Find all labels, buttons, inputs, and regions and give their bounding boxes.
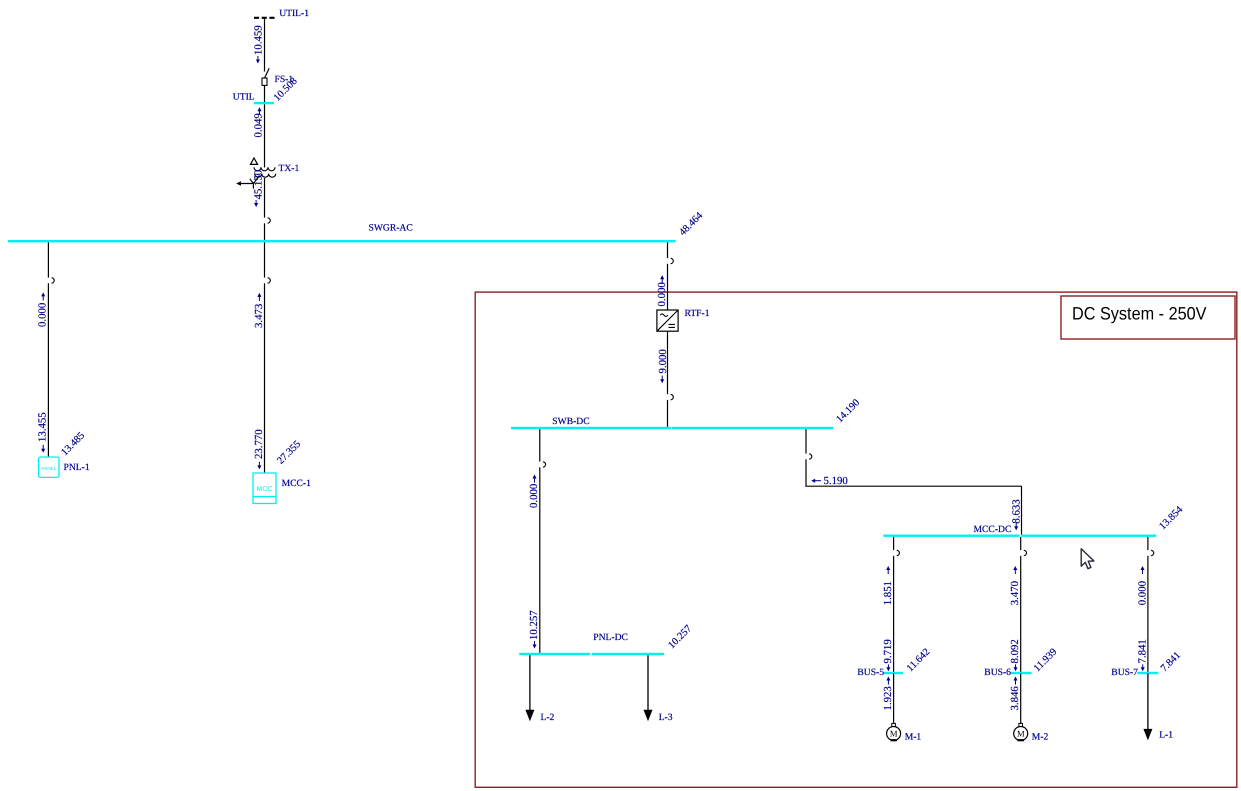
svg-text:MCC-DC: MCC-DC bbox=[974, 524, 1012, 535]
wire fuse to UTIL bus bbox=[264, 86, 266, 103]
svg-text:BUS-7: BUS-7 bbox=[1111, 667, 1138, 678]
svg-text:3.846: 3.846 bbox=[1009, 686, 1021, 711]
svg-text:0.000: 0.000 bbox=[528, 484, 540, 508]
flow arrow BUS-6 feed load bbox=[1013, 664, 1017, 671]
mouse cursor bbox=[1081, 549, 1094, 569]
circuit breaker CB PNL-DC feed bbox=[543, 462, 546, 467]
svg-text:BUS-6: BUS-6 bbox=[984, 667, 1011, 678]
flow arrow pnldc in bbox=[532, 475, 536, 483]
flow arrow mcc1 load bbox=[257, 462, 261, 470]
load L-1 bbox=[1143, 673, 1152, 740]
svg-text:10.459: 10.459 bbox=[252, 25, 264, 55]
svg-text:3.473: 3.473 bbox=[253, 304, 265, 328]
wire MCC-DC to BUS-7 lower bbox=[1147, 556, 1149, 672]
transformer TX-1 bbox=[254, 167, 276, 177]
wire MCC-DC to BUS-6 lower bbox=[1020, 556, 1022, 672]
flow arrow mcc1 in bbox=[257, 293, 261, 301]
bus UTIL bbox=[254, 102, 274, 104]
wire SWB-DC to MCC-DC v1 bbox=[805, 429, 807, 453]
wire SWB-DC to MCC-DC v3 bbox=[1021, 486, 1023, 534]
wire MCC-DC to BUS-5 lower bbox=[893, 556, 895, 672]
svg-text:UTIL: UTIL bbox=[233, 92, 255, 103]
svg-text:L-1: L-1 bbox=[1159, 729, 1173, 740]
svg-text:PNL-DC: PNL-DC bbox=[593, 632, 628, 643]
circuit breaker CB SWB-DC in bbox=[671, 394, 674, 399]
svg-text:MCC-1: MCC-1 bbox=[282, 478, 312, 489]
wire SWGR-AC to RTF-1 lower bbox=[667, 264, 669, 310]
flow arrow M-1 in bbox=[886, 677, 890, 685]
svg-text:0.000: 0.000 bbox=[656, 282, 668, 306]
svg-text:PANEL: PANEL bbox=[41, 466, 56, 471]
svg-text:8.092: 8.092 bbox=[1009, 639, 1021, 663]
circuit breaker CB BUS-5 bbox=[897, 550, 900, 555]
bus BUS-6 bbox=[1011, 672, 1032, 674]
rectifier RTF-1 bbox=[657, 310, 678, 331]
DC system title box bbox=[1061, 296, 1235, 339]
svg-text:M-2: M-2 bbox=[1032, 732, 1049, 743]
svg-text:7.841: 7.841 bbox=[1136, 639, 1148, 663]
flow arrow BUS-7 feed load bbox=[1141, 664, 1145, 671]
svg-text:0.049: 0.049 bbox=[252, 113, 264, 137]
wire UTIL bus to TX-1 bbox=[264, 104, 266, 167]
wire RTF-1 to SWB-DC lower bbox=[667, 400, 669, 427]
svg-text:0.000: 0.000 bbox=[1136, 581, 1148, 605]
delta winding symbol bbox=[250, 158, 257, 164]
flow arrow into tx bbox=[257, 107, 261, 115]
wire SWGR-AC to MCC-1 lower bbox=[264, 283, 266, 473]
svg-text:0.000: 0.000 bbox=[37, 303, 49, 327]
flow arrow BUS-7 feed in bbox=[1140, 566, 1144, 574]
circuit breaker CB incoming bbox=[268, 218, 271, 223]
flow arrow rtf in bbox=[660, 275, 664, 283]
svg-text:8.633: 8.633 bbox=[1011, 499, 1023, 523]
flow arrow BUS-5 feed load bbox=[886, 664, 890, 671]
load L-2 bbox=[525, 655, 534, 721]
bus PNL-DC bbox=[519, 653, 590, 655]
wire SWGR-AC to RTF-1 upper bbox=[667, 242, 669, 258]
flow arrow BUS-5 feed in bbox=[886, 566, 890, 574]
wire TX-1 to SWGR-AC lower bbox=[264, 223, 266, 240]
svg-text:23.770: 23.770 bbox=[253, 429, 265, 459]
bus MCC-DC bbox=[883, 535, 1019, 537]
svg-text:UTIL-1: UTIL-1 bbox=[279, 8, 309, 19]
svg-text:PNL-1: PNL-1 bbox=[64, 462, 90, 473]
wire SWGR-AC to PNL-1 lower bbox=[47, 283, 49, 457]
circuit breaker CB MCC-1 bbox=[268, 278, 271, 283]
wire SWB-DC to PNL-DC lower bbox=[539, 467, 541, 653]
wire SWB-DC to MCC-DC horiz bbox=[805, 485, 1021, 487]
flow arrow mccdc in bbox=[1014, 523, 1018, 531]
flow arrow rtf out bbox=[660, 376, 664, 384]
motor M-2 bbox=[1014, 723, 1028, 740]
motor control center MCC-1 bbox=[253, 473, 276, 504]
circuit breaker CB PNL-1 bbox=[52, 278, 55, 283]
svg-text:TX-1: TX-1 bbox=[279, 163, 300, 174]
circuit breaker CB BUS-7 bbox=[1151, 550, 1154, 555]
svg-text:M: M bbox=[1017, 728, 1025, 738]
wire SWGR-AC to MCC-1 upper bbox=[264, 242, 266, 277]
svg-text:DC System - 250V: DC System - 250V bbox=[1072, 304, 1207, 324]
svg-text:3.470: 3.470 bbox=[1009, 581, 1021, 605]
bus SWB-DC bbox=[511, 427, 671, 429]
wire TX-1 to SWGR-AC upper bbox=[264, 178, 266, 218]
wire BUS-6 to M-2 bbox=[1020, 673, 1022, 723]
flow arrow tx out bbox=[254, 200, 258, 207]
bus BUS-5 bbox=[884, 672, 903, 674]
bus SWGR-AC bbox=[8, 240, 676, 242]
flow arrow pnl1 in bbox=[41, 292, 45, 300]
wire SWB-DC to PNL-DC upper bbox=[539, 429, 541, 461]
svg-text:5.190: 5.190 bbox=[824, 475, 848, 487]
wye ground symbol bbox=[236, 176, 260, 189]
wire MCC-DC to BUS-6 upper bbox=[1020, 537, 1022, 550]
circuit breaker CB MCC-DC feed bbox=[809, 454, 812, 459]
svg-text:SWB-DC: SWB-DC bbox=[552, 416, 589, 427]
svg-text:L-2: L-2 bbox=[541, 712, 555, 723]
flow arrow 5.190 arrow bbox=[811, 479, 821, 483]
svg-text:L-3: L-3 bbox=[659, 712, 673, 723]
svg-text:9.719: 9.719 bbox=[882, 639, 894, 663]
circuit breaker CB BUS-6 bbox=[1024, 550, 1027, 555]
motor M-1 bbox=[887, 723, 901, 740]
flow arrow pnl1 load bbox=[41, 445, 45, 453]
wire SWB-DC to MCC-DC v2 bbox=[805, 459, 807, 486]
flow arrow feed down bbox=[256, 56, 260, 64]
svg-text:BUS-5: BUS-5 bbox=[857, 667, 884, 678]
fuse switch FS-1 bbox=[262, 68, 269, 85]
svg-text:RTF-1: RTF-1 bbox=[685, 308, 710, 319]
wire BUS-5 to M-1 bbox=[893, 673, 895, 723]
wire RTF-1 to SWB-DC upper bbox=[667, 331, 669, 394]
wire utility drop bbox=[264, 19, 266, 72]
flow arrow pnldc load bbox=[532, 641, 536, 649]
svg-text:10.257: 10.257 bbox=[528, 610, 540, 640]
svg-text:13.455: 13.455 bbox=[37, 412, 49, 442]
utility source UTIL-1 bbox=[254, 17, 275, 19]
svg-text:MCC: MCC bbox=[257, 486, 273, 493]
DC system boundary box bbox=[475, 292, 1237, 787]
svg-text:M-1: M-1 bbox=[905, 732, 922, 743]
bus BUS-7 bbox=[1137, 672, 1158, 674]
svg-text:1.851: 1.851 bbox=[882, 581, 894, 605]
wire MCC-DC to BUS-7 upper bbox=[1147, 537, 1149, 550]
svg-text:9.000: 9.000 bbox=[657, 349, 669, 373]
svg-text:M: M bbox=[890, 728, 898, 738]
svg-text:1.923: 1.923 bbox=[882, 686, 894, 710]
svg-text:SWGR-AC: SWGR-AC bbox=[369, 223, 413, 234]
circuit breaker CB RTF-1 bbox=[671, 258, 674, 263]
flow arrow BUS-6 feed in bbox=[1013, 566, 1017, 574]
wire MCC-DC to BUS-5 upper bbox=[893, 537, 895, 550]
panel PNL-1 bbox=[39, 457, 59, 477]
flow arrow M-2 in bbox=[1013, 677, 1017, 685]
wire SWGR-AC to PNL-1 upper bbox=[47, 242, 49, 277]
svg-text:45.150: 45.150 bbox=[252, 170, 264, 200]
load L-3 bbox=[644, 655, 653, 721]
